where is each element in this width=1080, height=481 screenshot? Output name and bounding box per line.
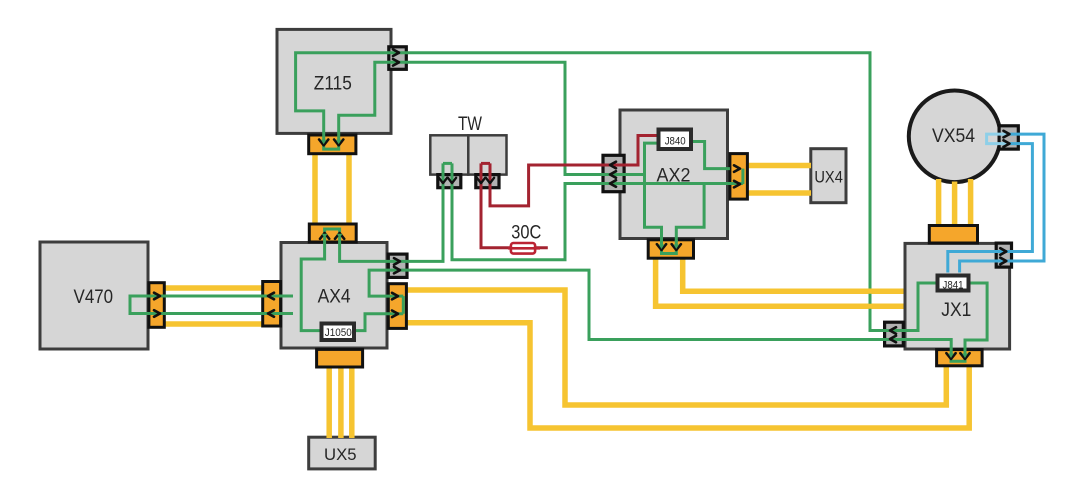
green wire AX2 bottom connector bridge xyxy=(662,240,677,254)
control unit Z115 xyxy=(277,29,391,133)
svg-text:J841: J841 xyxy=(943,280,964,292)
terminal V glyphs JX1 bottom connector xyxy=(946,353,969,359)
control unit AX2 xyxy=(620,110,728,239)
yellow wire VX54 to JX1 pad 2 xyxy=(952,182,958,227)
terminal chevrons AX4 left connector xyxy=(268,293,274,317)
terminal V glyphs Z115 bottom connector xyxy=(319,140,343,146)
green wire JX1 J841 right to bottom term2 xyxy=(965,283,987,357)
green wire TW-B to AX2 pin3 to AX2 right pin2 xyxy=(452,163,743,259)
terminal chevrons V470 right connector xyxy=(154,293,160,317)
green wire AX4 top term2 to TW-A xyxy=(340,163,443,261)
green wire AX2 J840 right to right conn pin1 xyxy=(691,142,730,169)
connector JX1 right xyxy=(996,243,1011,267)
green wire Z115 pin2 down to AX2 pin2 xyxy=(406,62,645,174)
svg-text:UX5: UX5 xyxy=(324,445,357,464)
yellow wire Z115 to AX4 left xyxy=(312,152,318,225)
connector AX2 bottom xyxy=(648,240,693,258)
svg-text:AX2: AX2 xyxy=(657,166,691,187)
terminal chevrons AX2 left connector xyxy=(610,162,616,187)
terminal V glyphs AX2 bottom connector xyxy=(657,244,681,250)
yellow wire AX4 to UX5 1 xyxy=(326,366,332,438)
yellow wire AX4 right to JX1 bottom pin1 xyxy=(406,290,946,405)
svg-text:30C: 30C xyxy=(511,223,541,244)
connector Z115 bottom xyxy=(309,135,356,154)
yellow wire AX2 bottom right pin to JX1 xyxy=(683,257,904,291)
control unit JX1 xyxy=(905,243,1010,349)
yellow wire VX54 to JX1 pad 1 xyxy=(936,179,942,226)
fuse 30C xyxy=(508,243,540,254)
yellow wire Z115 to AX4 right xyxy=(346,152,352,225)
terminal chevrons Z115 right connector xyxy=(393,49,399,65)
terminal V glyphs TW left connector xyxy=(439,178,456,183)
terminal chevrons AX4 right gray connector xyxy=(394,258,400,273)
green wire AX2 right connector bridge xyxy=(741,169,744,185)
connector JX1 left xyxy=(885,322,904,346)
red wire TW right element loop xyxy=(481,162,490,165)
sensor TW left box xyxy=(430,135,468,174)
red wire TW to fuse 30C xyxy=(481,163,548,247)
motor VX54 xyxy=(909,91,1001,183)
device V470 xyxy=(40,242,148,349)
connector Z115 right xyxy=(389,47,407,70)
device UX5 xyxy=(309,437,376,469)
blue wire VX54 upper pin to JX1 lower pin to J841 xyxy=(960,134,1044,272)
svg-text:UX4: UX4 xyxy=(814,168,843,187)
terminal chevrons JX1 left connector xyxy=(890,327,896,342)
connector AX4 right orange xyxy=(388,284,406,329)
connector V470 right xyxy=(149,283,164,328)
green wire AX2 J840 left to bottom term1 xyxy=(645,143,662,242)
green wire AX4 orange coil2 to J1050 right xyxy=(354,314,403,331)
green wire Z115 internal loop with bridge xyxy=(296,53,406,149)
connector AX4 left xyxy=(263,282,281,327)
svg-text:Z115: Z115 xyxy=(314,74,352,95)
yellow wire AX2 bottom left pin to JX1 xyxy=(656,257,904,306)
green wire AX4 top connector bridge xyxy=(325,229,340,241)
svg-text:VX54: VX54 xyxy=(932,126,975,147)
connector TW left xyxy=(438,175,461,188)
terminal glyphs AX4 top connector xyxy=(320,233,344,239)
yellow wire AX4 right to JX1 bottom pin2 xyxy=(406,323,969,428)
connector TW right xyxy=(476,175,499,188)
green wire TW left element loop xyxy=(443,162,452,165)
svg-text:J1050: J1050 xyxy=(325,327,352,339)
green arrow tips AX4 top terminals xyxy=(322,234,328,239)
yellow wire V470-AX4 top xyxy=(164,285,263,291)
red wire TW to AX2 pin1 and J840 xyxy=(490,136,659,206)
control unit AX4 xyxy=(281,243,387,349)
connector JX1 bottom xyxy=(937,350,983,366)
relay label J841 xyxy=(938,276,969,292)
yellow wire V470-AX4 bottom xyxy=(164,321,263,327)
svg-text:J840: J840 xyxy=(665,136,686,148)
green arrow tips AX2 bottom terminals xyxy=(659,245,665,250)
green wire JX1 bottom connector bridge xyxy=(951,354,965,361)
connector AX4 top xyxy=(309,224,356,242)
blue wire VX54 lower pin to JX1 upper pin to J841 xyxy=(948,144,1033,273)
yellow wire VX54 to JX1 pad 3 xyxy=(968,179,974,226)
blue wire VX54 loop xyxy=(987,134,1008,144)
svg-text:JX1: JX1 xyxy=(941,300,971,321)
yellow wire AX4 to UX5 3 xyxy=(349,366,355,438)
connector VX54 right xyxy=(999,126,1018,149)
connector AX4 bottom xyxy=(317,349,363,367)
terminal chevrons AX2 right connector xyxy=(734,165,740,187)
green wire AX4 right orange connector bridge xyxy=(402,296,405,314)
sensor TW right box xyxy=(468,135,506,174)
green wire AX4 internal to dark conn coil2, long wire to JX1 pin2 and bottom term1 xyxy=(369,270,951,356)
green wire AX4 top term1 to J1050 left xyxy=(301,241,324,331)
terminal chevrons VX54 right connector xyxy=(1004,131,1010,147)
relay label J1050 xyxy=(322,324,355,341)
connector JX1 top pad xyxy=(929,226,977,244)
svg-text:AX4: AX4 xyxy=(318,287,351,308)
green arrow tips Z115 bottom terminals xyxy=(321,140,327,145)
yellow wire AX2 to UX4 bottom xyxy=(746,190,811,196)
relay label J840 xyxy=(659,130,692,150)
connector AX4 right gray xyxy=(388,254,407,277)
terminal chevrons AX4 right orange connector xyxy=(392,293,398,317)
yellow wire AX4 to UX5 2 xyxy=(338,366,344,438)
device UX4 xyxy=(811,149,846,203)
connector AX2 right xyxy=(730,154,748,200)
terminal chevrons JX1 right connector xyxy=(1000,248,1006,264)
svg-text:V470: V470 xyxy=(74,287,114,308)
svg-text:TW: TW xyxy=(458,114,482,135)
green arrow tips JX1 bottom terminals xyxy=(948,354,954,359)
green wire AX2 pin3 branch to bottom term2 xyxy=(676,184,704,243)
yellow wire AX2 to UX4 top xyxy=(746,163,811,169)
connector AX2 left xyxy=(603,155,624,191)
terminal V glyphs TW right connector xyxy=(477,178,494,183)
green wire Z115 pin1 to JX1 left pin1 and J841 xyxy=(406,53,938,331)
green wire V470 loop to AX4 stubs xyxy=(130,296,293,314)
